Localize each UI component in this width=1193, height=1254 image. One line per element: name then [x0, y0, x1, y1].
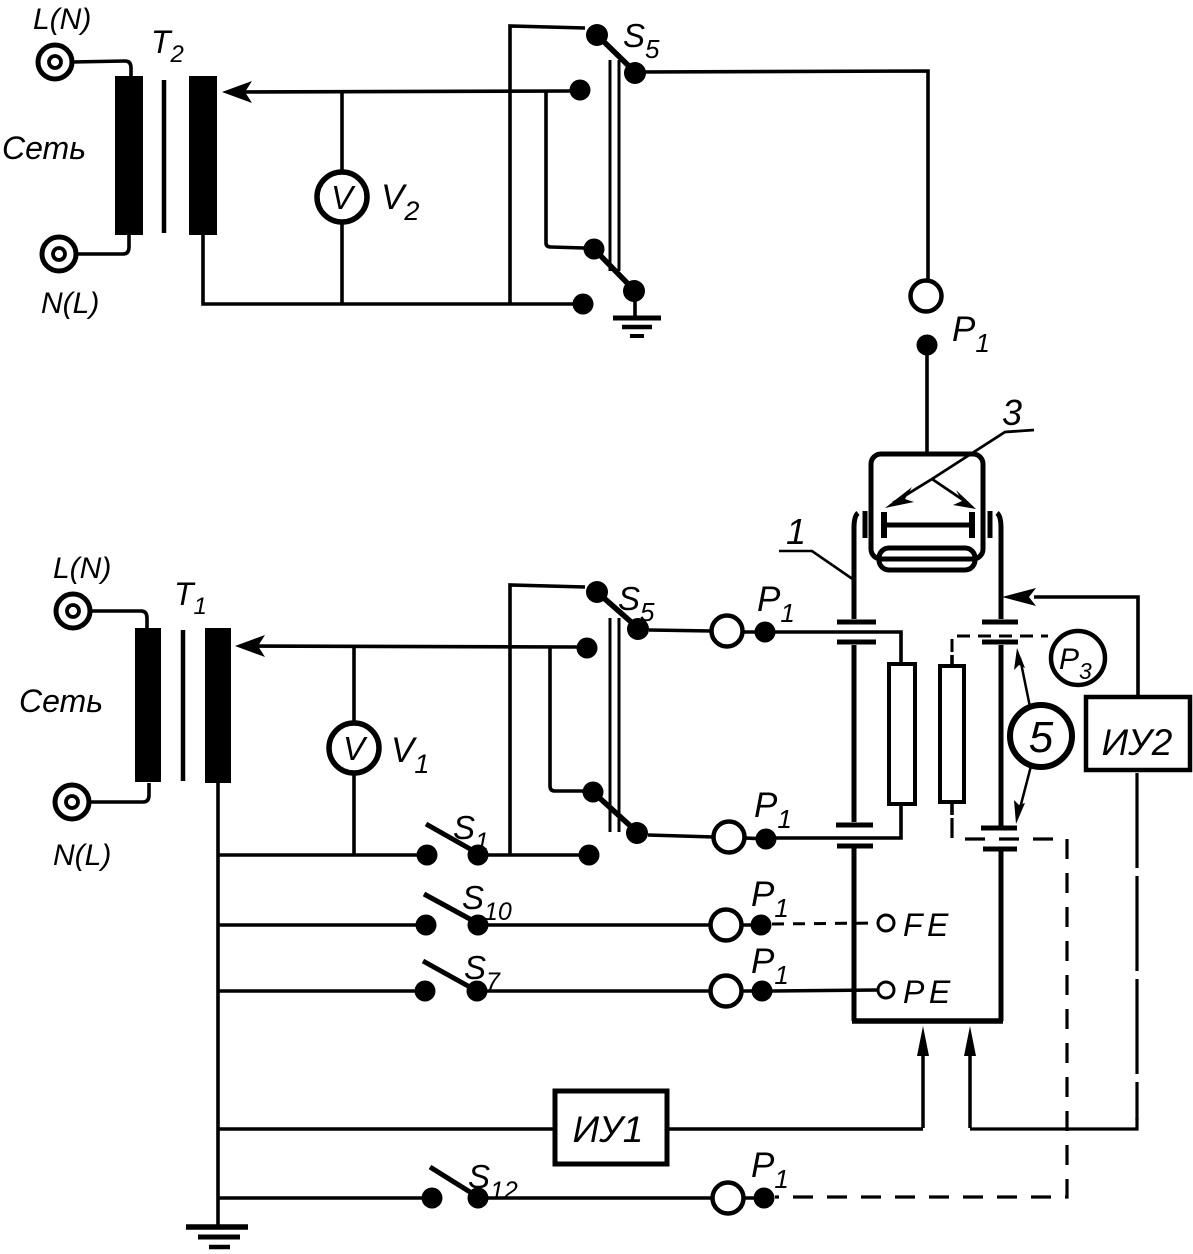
svg-text:V1: V1 [391, 731, 429, 779]
svg-text:PE: PE [903, 974, 955, 1010]
svg-text:P1: P1 [952, 310, 990, 358]
svg-text:L(N): L(N) [53, 552, 111, 585]
svg-text:V2: V2 [381, 178, 419, 226]
svg-text:V: V [331, 179, 356, 216]
svg-text:5: 5 [1029, 713, 1054, 762]
svg-text:P1: P1 [751, 1146, 789, 1194]
svg-text:L(N): L(N) [33, 3, 91, 36]
svg-text:P3: P3 [1059, 643, 1092, 684]
svg-text:N(L): N(L) [53, 839, 111, 872]
svg-text:Сеть: Сеть [2, 130, 86, 166]
svg-text:3: 3 [1002, 392, 1022, 433]
svg-text:N(L): N(L) [41, 287, 99, 320]
svg-text:V: V [343, 730, 368, 767]
svg-text:P1: P1 [754, 786, 792, 834]
svg-text:T1: T1 [174, 576, 207, 620]
svg-text:ИУ1: ИУ1 [573, 1109, 644, 1150]
svg-text:ИУ2: ИУ2 [1102, 722, 1173, 763]
svg-text:1: 1 [786, 511, 806, 552]
svg-text:T2: T2 [151, 24, 184, 68]
svg-text:P1: P1 [757, 580, 795, 628]
svg-text:Сеть: Сеть [19, 683, 103, 719]
svg-text:S5: S5 [623, 17, 660, 64]
svg-text:FE: FE [903, 907, 953, 943]
